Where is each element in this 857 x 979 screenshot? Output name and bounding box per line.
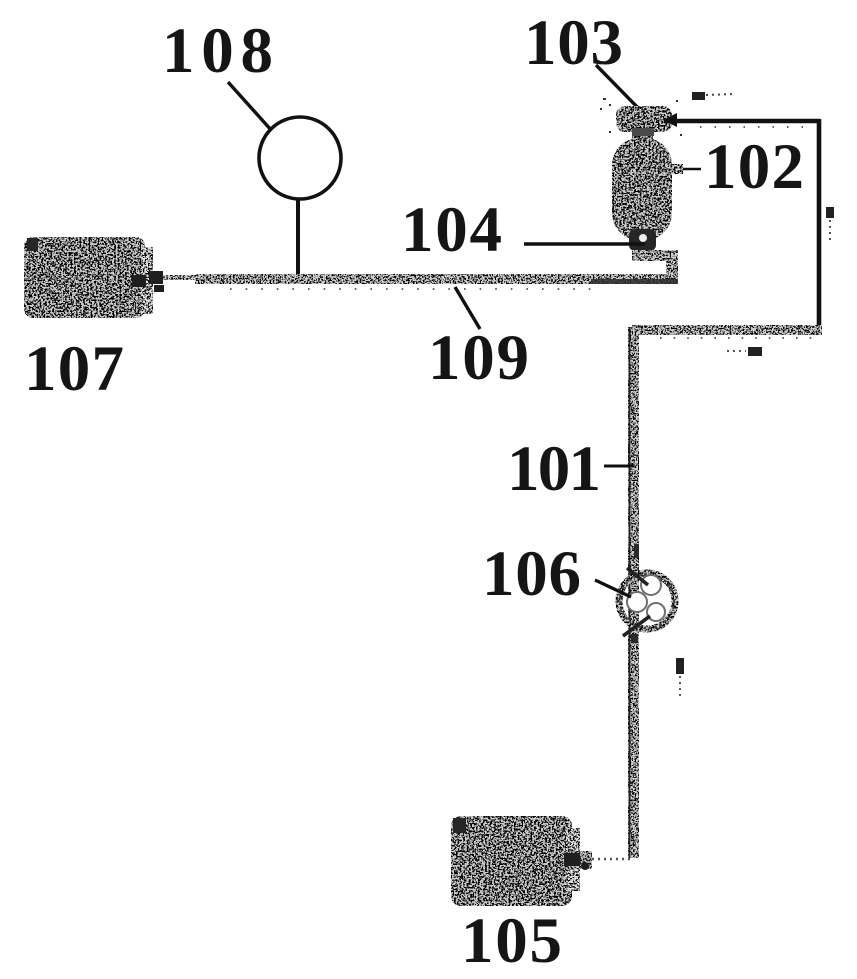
label 103 [524, 7, 623, 79]
vessel 107 [24, 237, 145, 318]
svg-text:101: 101 [507, 433, 601, 505]
leader line to 102 [658, 168, 701, 171]
flow arrow below pump [676, 658, 684, 696]
dotted specks under pipe 109 [230, 288, 600, 290]
pump 106 [619, 573, 675, 629]
right rim of 105 [566, 828, 580, 891]
neck dark band of 103 [632, 128, 654, 136]
svg-text:104: 104 [401, 194, 502, 266]
label 108 [162, 15, 273, 87]
leader line to gauge 108 [228, 82, 272, 131]
dotted wire from 105 to pipe 101 [592, 858, 634, 860]
svg-text:107: 107 [24, 333, 124, 405]
vertical pipe 101 [628, 327, 639, 858]
leader line 104 [524, 242, 645, 246]
dark left edge of pipe 101 [629, 327, 631, 858]
label 107 [24, 333, 124, 405]
leader line 101 [604, 465, 634, 468]
flow arrow on right pipe [826, 207, 834, 244]
top pipe wire (103 to right corner) [663, 113, 820, 127]
svg-text:103: 103 [524, 7, 623, 79]
connector of 105 [562, 851, 592, 869]
label 105 [461, 905, 562, 977]
right rim of 107 [141, 247, 153, 314]
vessel 102 [612, 138, 672, 240]
label 109 [428, 322, 529, 394]
svg-text:109: 109 [428, 322, 529, 394]
label 102 [704, 131, 804, 203]
tab of 105 [453, 818, 466, 833]
svg-text:102: 102 [704, 131, 804, 203]
flow arrow under lower pipe [727, 347, 762, 356]
flow arrow near top pipe [692, 92, 734, 100]
leader line to connector 103 [596, 65, 651, 122]
gauge stem wire [296, 199, 300, 274]
svg-text:106: 106 [482, 538, 581, 610]
svg-text:108: 108 [162, 15, 273, 87]
label 106 [482, 538, 581, 610]
label 101 [507, 433, 601, 505]
svg-text:105: 105 [461, 905, 562, 977]
lower horizontal pipe (right corner to pipe 101) [632, 325, 822, 335]
right vertical pipe wire [817, 119, 822, 332]
top connector 103 [616, 106, 672, 142]
leader line 106 [595, 580, 631, 597]
dust specks near connector 103 [600, 98, 682, 136]
gauge 108 (circle) [259, 117, 341, 199]
darker segment on pipe 109 right part [591, 279, 678, 284]
bottom connector of vessel 102 [629, 229, 656, 251]
dotted specks under lower pipe [660, 337, 820, 339]
leader line 109 [455, 287, 480, 329]
dotted specks under top pipe [700, 126, 812, 128]
label 104 [401, 194, 502, 266]
vessel 105 [451, 816, 572, 906]
pipe elbow under vessel 102 [632, 250, 678, 284]
pipe 109 (horizontal from 107 to elbow) [163, 274, 678, 284]
connector of 107 [132, 271, 164, 292]
tab of 107 [27, 238, 38, 251]
